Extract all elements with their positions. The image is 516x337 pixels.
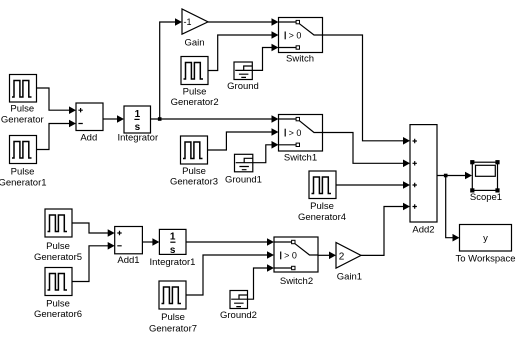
svg-text:Generator3: Generator3 — [170, 176, 218, 187]
ground block Ground — [227, 62, 259, 92]
svg-text:Switch1: Switch1 — [284, 152, 317, 163]
wire Integrator to Switch1 in1 (with junction) — [151, 115, 279, 123]
svg-text:Add2: Add2 — [412, 224, 434, 235]
integrator block Integrator1 — [150, 229, 196, 268]
pulse generator "Pulse Generator4" — [298, 171, 346, 223]
svg-text:1: 1 — [170, 231, 176, 242]
svg-text:> 0: > 0 — [289, 128, 302, 138]
svg-text:Add1: Add1 — [117, 255, 139, 266]
svg-text:Generator: Generator — [1, 114, 44, 125]
svg-text:Scope1: Scope1 — [470, 192, 502, 203]
switch block Switch1 — [279, 115, 323, 164]
svg-text:Generator1: Generator1 — [0, 177, 47, 188]
pulse generator "Pulse Generator7" — [149, 281, 197, 334]
wire Ground to Switch in3 — [252, 44, 278, 71]
svg-text:Pulse: Pulse — [46, 298, 70, 309]
switch block Switch — [279, 18, 323, 65]
svg-text:Generator5: Generator5 — [34, 252, 82, 263]
pulse generator "Pulse Generator5" — [34, 209, 82, 263]
svg-text:Pulse: Pulse — [310, 201, 334, 212]
sum block Add2 — [410, 125, 437, 236]
gain block Gain (-1) — [182, 9, 208, 48]
svg-text:Ground2: Ground2 — [220, 310, 257, 321]
svg-text:Gain1: Gain1 — [337, 272, 362, 283]
svg-text:Generator6: Generator6 — [34, 309, 82, 320]
svg-text:s: s — [170, 245, 176, 256]
svg-text:Switch: Switch — [286, 54, 314, 65]
to workspace block "To Workspace" (y) — [455, 225, 515, 265]
wire Integrator1 to Switch2 in1 — [186, 238, 274, 246]
wire Switch1 to Add2 in2 — [323, 133, 411, 168]
pulse generator "Pulse Generator1" — [0, 136, 47, 189]
wire Pulse Generator2 to Switch in2 — [208, 31, 279, 70]
wire Pulse Generator to Add in1 — [37, 88, 77, 114]
svg-text:Pulse: Pulse — [183, 87, 207, 98]
sum block Add — [76, 103, 103, 144]
svg-text:Pulse: Pulse — [10, 103, 34, 114]
svg-text:Pulse: Pulse — [11, 167, 35, 178]
scope block Scope1 (selected, with handles) — [470, 160, 502, 203]
wire Ground1 to Switch1 in3 — [253, 141, 279, 163]
svg-text:Pulse: Pulse — [46, 241, 70, 252]
svg-text:Switch2: Switch2 — [280, 276, 313, 287]
wire Pulse Generator7 to Switch2 in2 — [186, 251, 274, 295]
ground block Ground2 — [220, 291, 257, 322]
svg-text:Integrator: Integrator — [117, 133, 158, 144]
svg-text:Gain: Gain — [184, 37, 204, 48]
svg-text:Generator7: Generator7 — [149, 323, 197, 334]
svg-text:Pulse: Pulse — [161, 312, 185, 323]
wire junction down to To Workspace — [446, 176, 460, 242]
svg-text:Generator2: Generator2 — [171, 97, 219, 108]
svg-text:2: 2 — [339, 252, 345, 263]
wire Gain1 to Add2 in4 — [361, 203, 410, 256]
pulse generator "Pulse Generator2" — [171, 57, 219, 109]
wire Pulse Generator4 to Add2 in3 — [336, 181, 410, 189]
svg-text:Integrator1: Integrator1 — [150, 257, 196, 268]
svg-text:1: 1 — [135, 109, 141, 120]
svg-text:Add: Add — [80, 133, 97, 144]
wire Add2 to Scope1 (with junction) — [437, 172, 472, 180]
svg-text:> 0: > 0 — [284, 251, 297, 261]
switch block Switch2 — [274, 237, 318, 287]
svg-text:Ground1: Ground1 — [225, 175, 262, 186]
wire Gain to Switch in1 — [208, 18, 279, 26]
wire Add to Integrator — [103, 115, 124, 123]
wire Pulse Generator6 to Add1 in2 — [72, 242, 115, 282]
wire Pulse Generator1 to Add in2 — [37, 120, 77, 150]
svg-text:To Workspace: To Workspace — [455, 253, 515, 264]
ground block Ground1 — [225, 154, 262, 185]
wire Switch2 to Gain1 — [318, 252, 336, 260]
wire Ground2 to Switch2 in3 — [248, 264, 275, 299]
svg-text:-1: -1 — [184, 17, 192, 27]
wire junction up to Gain input — [160, 18, 182, 119]
wire Add1 to Integrator1 — [142, 238, 159, 246]
svg-text:> 0: > 0 — [289, 31, 302, 41]
pulse generator "Pulse Generator3" — [170, 136, 218, 187]
sum block Add1 — [115, 227, 143, 267]
integrator block Integrator — [117, 106, 158, 144]
pulse generator "Pulse Generator" — [1, 75, 44, 126]
wire Pulse Generator5 to Add1 in1 — [72, 223, 115, 237]
wire Pulse Generator3 to Switch1 in2 — [208, 128, 279, 150]
pulse generator "Pulse Generator6" — [34, 268, 82, 320]
svg-text:y: y — [483, 233, 488, 244]
wire Switch to Add2 in1 — [323, 35, 411, 145]
svg-text:Ground: Ground — [227, 81, 259, 92]
gain block Gain1 (2) — [336, 243, 362, 283]
svg-text:Generator4: Generator4 — [298, 212, 346, 223]
